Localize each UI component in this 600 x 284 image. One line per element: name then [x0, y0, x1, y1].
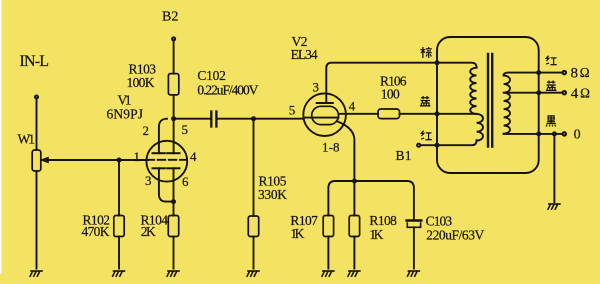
- potentiometer W1: [32, 150, 41, 171]
- V2 grid line pin5: [304, 117, 339, 119]
- V1 cathode right bar: [167, 167, 179, 169]
- ground: [247, 271, 259, 276]
- transformer core: [487, 54, 489, 147]
- terminal 0: [563, 132, 566, 135]
- svg-text:2: 2: [143, 123, 150, 138]
- svg-text:4: 4: [571, 86, 579, 102]
- terminal 4ohm: [563, 91, 566, 94]
- wire secondary bottom to 0 terminal: [504, 133, 562, 135]
- svg-text:5: 5: [289, 103, 296, 118]
- tube V1: [146, 141, 187, 182]
- svg-text:6N9PJ: 6N9PJ: [107, 107, 144, 122]
- svg-text:1K: 1K: [369, 227, 383, 242]
- tube V2: [303, 93, 346, 136]
- V1 plate right bar: [167, 152, 179, 154]
- resistor R105: [253, 119, 255, 216]
- svg-text:220uF/63V: 220uF/63V: [426, 228, 484, 243]
- svg-text:R108: R108: [369, 213, 397, 228]
- svg-text:3: 3: [145, 173, 152, 188]
- junction loop/8ohm: [537, 71, 541, 75]
- svg-text:4: 4: [190, 149, 197, 164]
- wire secondary tap to 4ohm terminal: [504, 92, 562, 94]
- svg-text:6: 6: [182, 174, 189, 189]
- V1 plate left lead: [158, 143, 160, 154]
- W1 wiper arrow: [48, 159, 148, 161]
- label red (hong) B1 primary bottom: [421, 131, 432, 140]
- junction loop/plate wire: [435, 61, 439, 65]
- ground: [408, 271, 420, 276]
- wire input to W1 top: [36, 99, 38, 150]
- resistor R107: [323, 216, 333, 237]
- wire pin2 curve: [159, 119, 167, 143]
- svg-text:C102: C102: [197, 68, 226, 83]
- B2 terminal: [172, 37, 175, 40]
- wire C102 to V2 grid: [218, 118, 304, 120]
- svg-text:0.22uF/400V: 0.22uF/400V: [197, 83, 258, 98]
- ground: [348, 271, 360, 276]
- cathode bus wire: [328, 181, 354, 216]
- ground: [167, 271, 179, 276]
- V1 cathode left lead curve: [159, 168, 174, 201]
- V1 plate right lead pin5: [173, 119, 175, 154]
- transformer primary winding: [470, 68, 483, 141]
- svg-text:IN-L: IN-L: [20, 53, 50, 70]
- svg-text:Ω: Ω: [580, 85, 590, 100]
- svg-text:8: 8: [571, 66, 579, 82]
- label brown (zong) primary top: [421, 47, 432, 58]
- V2 grid assembly stadium: [312, 106, 339, 124]
- svg-text:EL34: EL34: [291, 47, 318, 62]
- junction node grid V1: [117, 158, 121, 162]
- svg-text:5: 5: [182, 122, 189, 137]
- svg-text:3: 3: [313, 80, 320, 95]
- junction cathode node V1: [171, 200, 175, 204]
- resistor R102: [118, 160, 120, 216]
- V2 screen lead pin4: [339, 113, 379, 115]
- svg-text:470K: 470K: [82, 224, 110, 239]
- label blue (lan) 4ohm secondary: [546, 81, 557, 91]
- svg-text:V1: V1: [118, 93, 132, 108]
- svg-text:330K: 330K: [258, 187, 287, 202]
- terminal 8ohm: [563, 71, 566, 74]
- junction cathode bus V2: [352, 179, 356, 183]
- junction loop/B1 wire: [435, 143, 439, 147]
- label red (hong) 8ohm secondary: [546, 56, 557, 65]
- svg-text:2K: 2K: [141, 224, 156, 239]
- svg-text:1-8: 1-8: [322, 140, 340, 155]
- resistor R108: [353, 181, 355, 216]
- capacitor C102: [210, 112, 212, 127]
- junction loop/4ohm: [537, 91, 541, 95]
- svg-text:100: 100: [381, 87, 400, 102]
- wire B2 to R103: [173, 41, 175, 74]
- svg-text:1K: 1K: [290, 226, 304, 241]
- ground: [30, 271, 42, 276]
- transformer secondary winding: [504, 76, 510, 134]
- svg-text:B1: B1: [396, 148, 412, 163]
- ground: [322, 271, 334, 276]
- junction plate node V1: [172, 117, 176, 121]
- wire R106 to transformer tap: [400, 113, 477, 115]
- node B1 terminal: [417, 144, 420, 147]
- input terminal: [35, 96, 38, 99]
- V2 plate bar: [317, 102, 333, 104]
- junction ground tap: [552, 132, 556, 136]
- V1 cathode right lead: [173, 168, 175, 201]
- svg-text:W1: W1: [18, 132, 36, 147]
- svg-text:C103: C103: [426, 214, 453, 229]
- V1 plate left bar: [153, 152, 165, 154]
- resistor R106: [378, 109, 400, 119]
- wire secondary top to 8ohm terminal: [504, 73, 562, 76]
- wire B1 to primary bottom: [421, 140, 477, 145]
- label black (hei) 0 secondary: [546, 116, 556, 127]
- ground: [548, 204, 560, 209]
- V1 cathode left bar: [153, 167, 165, 169]
- svg-text:Ω: Ω: [580, 65, 590, 80]
- V2 plate lead pin3 wire: [326, 63, 437, 103]
- wire R103 to plate node: [173, 95, 175, 119]
- ground: [113, 271, 125, 276]
- wire W1 bottom to ground: [36, 171, 38, 269]
- junction R105 node: [251, 117, 255, 121]
- resistor R103: [168, 74, 178, 95]
- wire plate node to C102: [174, 118, 211, 120]
- svg-text:1: 1: [134, 149, 141, 164]
- V1 grid dashed row: [147, 159, 187, 161]
- junction loop/screen tap: [435, 112, 439, 116]
- label blue (lan) screen tap: [420, 96, 431, 106]
- transformer shield loop: [437, 37, 539, 173]
- wire plate to primary top: [437, 63, 477, 68]
- capacitor C103: [407, 219, 422, 222]
- V2 cathode lead curve: [338, 122, 355, 182]
- svg-text:4: 4: [349, 99, 356, 114]
- svg-text:0: 0: [574, 128, 581, 143]
- resistor R104: [173, 202, 175, 216]
- svg-text:B2: B2: [162, 10, 178, 25]
- wire 0 terminal to ground: [553, 134, 555, 202]
- junction loop/0: [537, 132, 541, 136]
- svg-text:100K: 100K: [127, 75, 155, 90]
